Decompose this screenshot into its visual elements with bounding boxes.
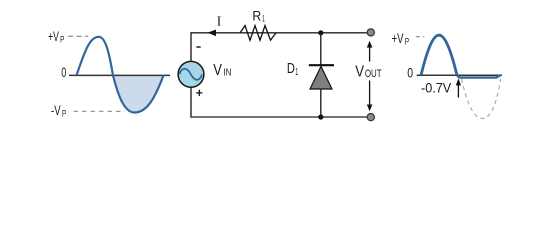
output terminal bottom	[367, 114, 374, 121]
svg-text:0: 0	[61, 64, 66, 80]
output sine positive lobe	[421, 35, 457, 75]
svg-text:-V: -V	[51, 103, 61, 118]
svg-text:1: 1	[295, 67, 298, 78]
input waveform negative lobe fill	[113, 75, 164, 112]
diode D1 triangle	[310, 66, 332, 89]
ac source sine symbol	[180, 69, 202, 80]
input waveform axis	[69, 74, 170, 76]
svg-text:IN: IN	[223, 68, 231, 79]
wire left vertical upper	[190, 32, 192, 61]
ghost clipped trough (dashed)	[462, 79, 501, 119]
svg-text:0: 0	[407, 65, 413, 80]
node A junction dot (top)	[318, 30, 323, 35]
-Vp dashed level (input)	[74, 110, 126, 112]
svg-text:+V: +V	[48, 29, 59, 44]
svg-text:P: P	[62, 109, 66, 119]
minus sign of source	[196, 46, 200, 48]
wire top	[191, 32, 367, 34]
plus sign of source	[196, 92, 202, 94]
current arrow I	[208, 30, 217, 37]
resistor R1 zigzag	[240, 26, 276, 41]
Vout up arrow	[369, 47, 371, 62]
svg-text:-0.7V: -0.7V	[421, 81, 451, 96]
output waveform axis	[417, 74, 502, 76]
svg-text:I: I	[217, 14, 222, 29]
svg-text:P: P	[60, 34, 64, 44]
wire left vertical lower	[190, 87, 192, 117]
Vout down arrow	[369, 81, 371, 105]
-0.7V pointer arrow	[457, 85, 459, 98]
wire diode branch lower	[320, 89, 322, 117]
output clip level line -0.7V	[457, 75, 500, 78]
+Vp dashed level (input)	[68, 35, 88, 37]
input waveform sine	[77, 37, 164, 113]
diode D1 cathode bar	[309, 64, 334, 66]
svg-text:+V: +V	[392, 31, 404, 46]
svg-text:V: V	[355, 63, 364, 80]
ac source V_IN circle	[178, 61, 204, 87]
node B junction dot (bottom)	[318, 114, 323, 119]
output terminal top	[367, 29, 374, 36]
+Vp dashed level (output)	[416, 36, 424, 38]
svg-text:V: V	[213, 62, 222, 79]
svg-text:1: 1	[262, 14, 265, 25]
wire bottom	[191, 116, 367, 118]
wire diode branch upper	[320, 33, 322, 65]
svg-text:D: D	[287, 60, 295, 77]
svg-text:R: R	[252, 8, 261, 24]
output clipped sliver fill	[457, 75, 500, 77]
svg-text:OUT: OUT	[365, 68, 382, 80]
svg-text:P: P	[405, 36, 409, 46]
